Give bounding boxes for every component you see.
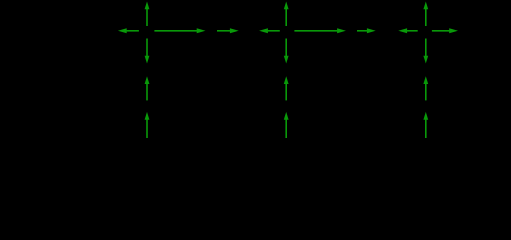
arrowhead column3 top up [423, 2, 428, 10]
wire column3 bottom up-arrow stem [425, 119, 427, 139]
arrowhead column1 bottom up [145, 112, 150, 120]
arrowhead column2 mid up [284, 76, 289, 84]
wire H7 left-arrow stem [405, 30, 417, 32]
wire column1 up-arrow top stem [146, 9, 148, 27]
arrowhead column1 top up [145, 2, 150, 10]
wire H6 right-arrow stem [357, 30, 369, 32]
wire column3 up-arrow top stem [425, 9, 427, 27]
wire H2 right-arrow stem [154, 30, 198, 32]
wire column1 mid up-arrow stem [146, 83, 148, 100]
arrowhead H6 right [367, 28, 376, 33]
wire column2 mid up-arrow stem [285, 83, 287, 100]
wire H4 left-arrow stem [266, 30, 280, 32]
arrowhead H4 left [259, 28, 268, 33]
wire H1 left-arrow stem [127, 30, 139, 32]
wire H8 right-arrow stem [432, 30, 451, 32]
wire column1 down-arrow stem [146, 39, 148, 57]
arrowhead H3 right [230, 28, 239, 33]
arrowhead column3 down [423, 56, 428, 64]
wire column2 down-arrow stem [285, 39, 287, 57]
arrowhead column3 mid up [423, 76, 428, 84]
arrowhead column2 bottom up [284, 112, 289, 120]
arrowhead H8 right [449, 28, 458, 33]
arrowhead column2 top up [284, 2, 289, 10]
wire column3 mid up-arrow stem [425, 83, 427, 100]
wire column3 down-arrow stem [425, 39, 427, 57]
arrowhead H1 left [118, 28, 127, 33]
arrowhead column2 down [284, 56, 289, 64]
arrowhead H2 right [197, 28, 206, 33]
arrowhead H7 left [398, 28, 407, 33]
arrowhead column1 down [145, 56, 150, 64]
arrowhead H5 right [337, 28, 346, 33]
arrowhead column1 mid up [145, 76, 150, 84]
wire column2 up-arrow top stem [285, 9, 287, 27]
wire H5 right-arrow stem [294, 30, 339, 32]
wire column1 bottom up-arrow stem [146, 119, 148, 139]
wire H3 right-arrow stem [217, 30, 232, 32]
wire column2 bottom up-arrow stem [285, 119, 287, 139]
arrowhead column3 bottom up [423, 112, 428, 120]
